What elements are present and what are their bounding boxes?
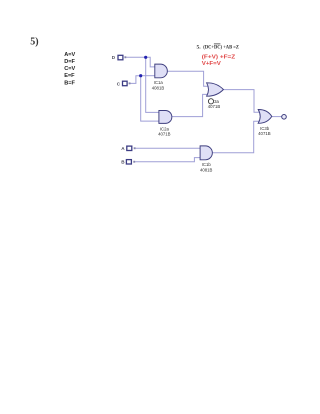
svg-text:D=F: D=F [64, 59, 75, 65]
svg-text:(F+V) +F=Z: (F+V) +F=Z [202, 54, 236, 60]
svg-text:V+F=V: V+F=V [202, 61, 221, 67]
svg-text:C: C [117, 81, 121, 86]
svg-text:B=F: B=F [64, 81, 75, 87]
svg-text:5.: 5. [197, 45, 202, 51]
svg-text:IC1a: IC1a [154, 80, 164, 85]
svg-text:4071B: 4071B [258, 131, 271, 136]
svg-text:4071B: 4071B [208, 104, 221, 109]
svg-text:4081B: 4081B [200, 168, 213, 173]
svg-text:(DC+DC) +AB =Z: (DC+DC) +AB =Z [203, 44, 239, 51]
svg-text:IC1b: IC1b [202, 162, 212, 167]
svg-text:4081B: 4081B [152, 86, 165, 91]
svg-text:A: A [121, 146, 125, 151]
svg-text:E=F: E=F [64, 73, 75, 79]
svg-text:5): 5) [30, 37, 38, 48]
svg-text:4071B: 4071B [158, 132, 171, 137]
svg-text:D: D [112, 55, 116, 60]
svg-text:B: B [121, 159, 125, 164]
svg-text:A=V: A=V [64, 52, 75, 58]
svg-text:C=V: C=V [64, 66, 75, 72]
